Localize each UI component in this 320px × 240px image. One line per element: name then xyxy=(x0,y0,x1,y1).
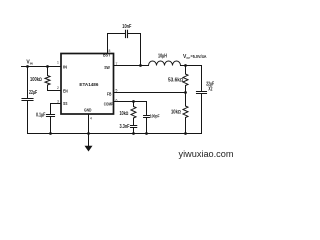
svg-text:100pF: 100pF xyxy=(150,114,160,120)
svg-text:0.1µF: 0.1µF xyxy=(36,112,45,118)
svg-text:10kΩ: 10kΩ xyxy=(171,110,181,116)
svg-text:4: 4 xyxy=(90,117,92,121)
svg-text:COMP: COMP xyxy=(104,101,113,106)
node FB divider ground junction xyxy=(184,132,187,135)
svg-text:100kΩ: 100kΩ xyxy=(30,77,42,83)
resistor R3 10k zigzag xyxy=(183,93,188,134)
svg-text:53.6kΩ: 53.6kΩ xyxy=(168,78,184,84)
svg-text:6: 6 xyxy=(116,99,118,103)
node COMP junction xyxy=(132,100,135,103)
wire output cap bottom lead xyxy=(201,94,203,134)
node Vin junction xyxy=(26,65,29,68)
wire ground rail xyxy=(28,133,202,135)
wire SW output xyxy=(114,65,149,67)
capacitor C1 22uF plates xyxy=(22,99,33,101)
resistor R1 100k zigzag xyxy=(45,67,61,91)
wire Vin input rail xyxy=(22,66,62,68)
node FB junction xyxy=(184,91,187,94)
resistor R4 10k comp zigzag xyxy=(131,102,136,126)
svg-text:10nF: 10nF xyxy=(122,24,131,30)
wire input cap top lead xyxy=(27,67,29,98)
svg-text:SW: SW xyxy=(104,65,110,70)
node EN divider junction xyxy=(46,65,49,68)
wire SS stub xyxy=(51,104,62,114)
wire COMP stub xyxy=(114,101,147,103)
svg-text:IN: IN xyxy=(30,61,33,65)
wire output cap top lead xyxy=(201,66,203,92)
svg-text:10µH: 10µH xyxy=(158,54,167,60)
capacitor C3 10nF plates xyxy=(126,30,128,37)
node SS cap ground junction xyxy=(49,132,52,135)
wire input cap bottom lead xyxy=(27,101,29,134)
svg-text:1: 1 xyxy=(57,61,59,65)
svg-text:10kΩ: 10kΩ xyxy=(120,111,129,117)
op-amp U1 ETA1486 box xyxy=(61,54,114,115)
svg-text:IN: IN xyxy=(63,65,67,70)
svg-text:FB: FB xyxy=(107,91,112,96)
capacitor C2 0.1uF plates xyxy=(47,115,55,117)
node Vout junction xyxy=(184,64,187,67)
inductor L1 10uH xyxy=(149,61,181,66)
svg-text:X2: X2 xyxy=(208,87,212,93)
node 100pF ground junction xyxy=(145,132,148,135)
wire BST lead xyxy=(108,34,126,54)
svg-text:=5.0V/4A: =5.0V/4A xyxy=(191,54,207,59)
capacitor C6 22uF x2 plates xyxy=(197,92,207,94)
svg-text:7: 7 xyxy=(116,62,118,66)
wire BST cap right lead down to SW xyxy=(128,34,141,66)
svg-text:EN: EN xyxy=(63,89,68,94)
svg-text:3.3nF: 3.3nF xyxy=(120,124,130,130)
svg-text:yiwuxiao.com: yiwuxiao.com xyxy=(179,149,234,160)
wire GND pin lead xyxy=(88,115,90,147)
wire comp cap bottom lead xyxy=(133,128,135,134)
wire 100pF bottom lead xyxy=(146,118,148,134)
node SW-BST junction xyxy=(139,64,142,67)
capacitor C4 3.3nF plates xyxy=(131,126,137,128)
svg-text:3: 3 xyxy=(57,100,59,104)
svg-text:2: 2 xyxy=(57,86,59,90)
wire FB xyxy=(114,92,186,94)
capacitor C5 100pF plates xyxy=(144,116,150,118)
resistor R2 53.6k zigzag xyxy=(183,66,188,93)
svg-text:SS: SS xyxy=(63,101,67,106)
svg-text:BST: BST xyxy=(103,53,111,58)
wire Vout rail xyxy=(181,65,202,67)
svg-text:22µF: 22µF xyxy=(29,90,37,96)
ground symbol arrow xyxy=(85,146,93,152)
wire SS cap bottom lead xyxy=(50,117,52,134)
node GND junction xyxy=(87,132,90,135)
svg-text:5: 5 xyxy=(116,89,118,93)
node comp RC ground junction xyxy=(132,132,135,135)
svg-text:GND: GND xyxy=(84,108,92,113)
wire 100pF branch top lead xyxy=(146,102,148,116)
svg-text:ETA1486: ETA1486 xyxy=(79,82,98,88)
